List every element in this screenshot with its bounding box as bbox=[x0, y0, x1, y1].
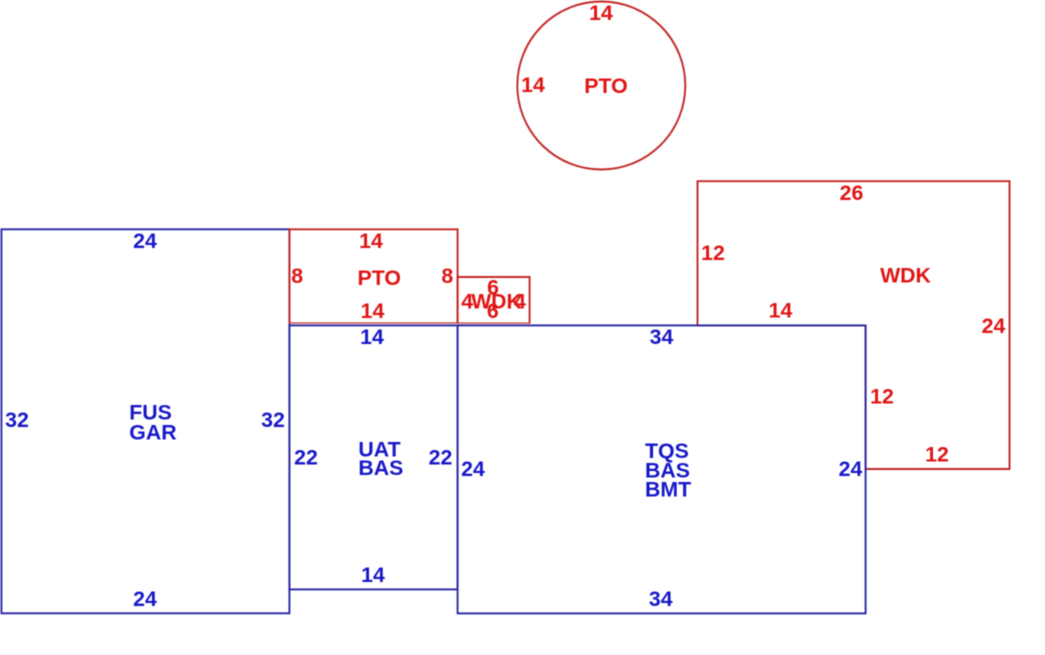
svg-text:32: 32 bbox=[5, 408, 29, 432]
svg-text:24: 24 bbox=[839, 457, 863, 481]
svg-text:4: 4 bbox=[514, 290, 526, 314]
svg-text:32: 32 bbox=[261, 408, 285, 432]
svg-text:34: 34 bbox=[650, 325, 674, 349]
svg-text:14: 14 bbox=[359, 229, 383, 253]
svg-text:22: 22 bbox=[429, 446, 453, 470]
svg-text:6: 6 bbox=[487, 299, 499, 323]
svg-text:12: 12 bbox=[925, 443, 949, 467]
svg-text:GAR: GAR bbox=[129, 420, 176, 444]
svg-text:8: 8 bbox=[441, 264, 453, 288]
svg-text:14: 14 bbox=[361, 563, 385, 587]
svg-text:14: 14 bbox=[521, 73, 545, 97]
svg-text:WDK: WDK bbox=[880, 263, 931, 287]
svg-text:24: 24 bbox=[133, 587, 157, 611]
svg-text:12: 12 bbox=[870, 385, 894, 409]
svg-text:24: 24 bbox=[461, 457, 485, 481]
svg-text:24: 24 bbox=[133, 229, 157, 253]
svg-text:14: 14 bbox=[589, 1, 613, 25]
svg-text:14: 14 bbox=[769, 299, 793, 323]
svg-text:24: 24 bbox=[982, 314, 1006, 338]
svg-text:PTO: PTO bbox=[357, 266, 400, 290]
svg-text:34: 34 bbox=[649, 587, 673, 611]
svg-text:22: 22 bbox=[294, 446, 318, 470]
svg-text:14: 14 bbox=[361, 299, 385, 323]
svg-text:8: 8 bbox=[291, 264, 303, 288]
svg-text:26: 26 bbox=[840, 181, 864, 205]
svg-text:BMT: BMT bbox=[645, 478, 691, 502]
svg-text:PTO: PTO bbox=[584, 74, 627, 98]
svg-text:12: 12 bbox=[701, 241, 725, 265]
svg-text:BAS: BAS bbox=[358, 456, 403, 480]
svg-text:14: 14 bbox=[360, 325, 384, 349]
